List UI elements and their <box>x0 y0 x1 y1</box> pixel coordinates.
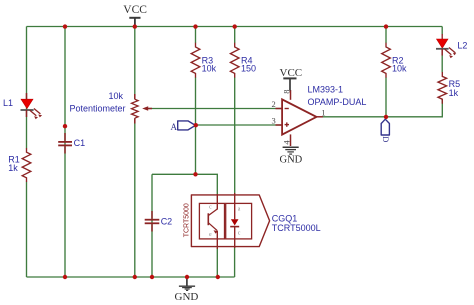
label R5 value 1k <box>449 79 461 98</box>
label CGQ1 TCRT5000L <box>272 214 321 234</box>
pin number 4 <box>281 140 291 145</box>
junction top rail at R4 <box>233 24 237 28</box>
svg-text:GND: GND <box>175 291 199 303</box>
resistor R5 <box>438 72 447 104</box>
capacitor C2 <box>145 211 160 232</box>
svg-text:LM393-1: LM393-1 <box>308 85 344 95</box>
pin number 1 <box>321 107 325 117</box>
wire C2 branch <box>151 174 153 277</box>
svg-text:L2: L2 <box>457 40 467 50</box>
svg-text:1k: 1k <box>8 163 18 173</box>
wire R3 branch <box>195 27 197 175</box>
svg-text:c: c <box>209 205 212 211</box>
junction top rail at C1 <box>63 24 67 28</box>
junction bottom rail at C2 <box>150 275 154 279</box>
junction bottom rail at C1 <box>63 275 67 279</box>
label R2 value 10k <box>392 56 407 74</box>
junction bottom rail at emitter <box>216 275 220 279</box>
potentiometer 10k <box>132 94 153 124</box>
junction node A <box>194 123 198 127</box>
wire R2 branch <box>385 27 387 117</box>
junction top rail at R3 <box>193 24 197 28</box>
wire R4 to sensor anode <box>234 27 236 194</box>
wire op-amp output to R5 <box>322 99 442 117</box>
label R3 value 10k <box>202 55 217 73</box>
wire left rail <box>26 27 28 278</box>
svg-text:10k: 10k <box>108 91 123 101</box>
optocoupler CGQ1 TCRT5000 outer body <box>184 195 270 247</box>
svg-text:GND: GND <box>280 154 303 165</box>
svg-text:4: 4 <box>281 140 291 145</box>
svg-text:c: c <box>238 231 241 237</box>
svg-text:1: 1 <box>321 107 325 117</box>
svg-text:L1: L1 <box>3 98 13 108</box>
svg-text:a: a <box>238 206 241 212</box>
pin number 2 <box>272 99 276 109</box>
svg-text:10k: 10k <box>392 64 407 74</box>
LED L1 <box>21 93 43 119</box>
svg-text:C1: C1 <box>74 138 86 148</box>
svg-text:OPAMP-DUAL: OPAMP-DUAL <box>308 97 367 107</box>
wire node A to op-amp pin 3 <box>196 124 282 126</box>
ground GND main bottom <box>175 277 199 303</box>
pin number 3 <box>272 115 276 125</box>
VCC power symbol top <box>123 4 147 27</box>
wire wiper to op-amp pin 2 <box>148 108 282 110</box>
junction top rail at R2 <box>384 24 388 28</box>
wire L2 branch <box>441 27 443 73</box>
label C1 <box>74 138 86 148</box>
pin number 8 <box>281 90 291 94</box>
svg-text:TCRT5000: TCRT5000 <box>184 203 191 237</box>
junction C1 branch <box>63 124 67 128</box>
label L2 <box>457 40 467 50</box>
resistor R4 <box>230 43 239 78</box>
resistor R1 <box>22 148 31 182</box>
wire node collector: horizontal y=174 and down into sensor <box>152 174 217 194</box>
label R1 value 1k <box>8 155 20 173</box>
sensor IR LED cell <box>226 193 252 248</box>
svg-text:e: e <box>209 232 212 238</box>
svg-text:1k: 1k <box>449 88 459 98</box>
junction bottom rail at potentiometer <box>133 275 137 279</box>
svg-text:D: D <box>381 136 391 142</box>
op-amp U1 LM393-1 <box>276 90 323 146</box>
wire sensor emitter to bottom rail <box>216 249 218 278</box>
wire top rail <box>27 26 443 28</box>
capacitor C1 <box>58 133 72 154</box>
label R4 value 150 <box>241 55 256 73</box>
junction top rail at VCC <box>133 24 137 28</box>
connector A <box>171 121 196 132</box>
svg-text:Potentiometer: Potentiometer <box>69 103 125 113</box>
wire sensor cathode to bottom rail <box>234 248 236 278</box>
svg-text:A: A <box>171 122 178 132</box>
resistor R2 <box>382 43 391 78</box>
ground GND op-amp <box>280 147 303 165</box>
label C2 <box>161 216 173 226</box>
junction collector node <box>193 172 197 176</box>
LED L2 <box>436 34 456 58</box>
junction output node D <box>384 115 388 119</box>
label L1 <box>3 98 13 108</box>
wire potentiometer branch <box>134 27 136 278</box>
svg-text:2: 2 <box>272 99 276 109</box>
VCC power symbol op-amp <box>280 67 303 91</box>
svg-text:VCC: VCC <box>123 4 147 16</box>
connector D <box>381 119 391 142</box>
svg-text:10k: 10k <box>202 63 217 73</box>
label potentiometer 10k <box>69 91 125 114</box>
resistor R3 <box>191 43 200 78</box>
svg-text:150: 150 <box>241 63 256 73</box>
svg-text:CGQ1: CGQ1 <box>272 214 298 224</box>
svg-text:C2: C2 <box>161 216 173 226</box>
wire C1 branch <box>64 27 66 278</box>
svg-text:3: 3 <box>272 115 276 125</box>
svg-text:TCRT5000L: TCRT5000L <box>272 223 321 233</box>
junction bottom rail at GND <box>185 275 189 279</box>
label LM393-1 OPAMP-DUAL <box>308 85 367 108</box>
sensor phototransistor cell <box>199 194 224 249</box>
svg-text:VCC: VCC <box>280 67 303 79</box>
wire bottom rail <box>27 276 235 278</box>
